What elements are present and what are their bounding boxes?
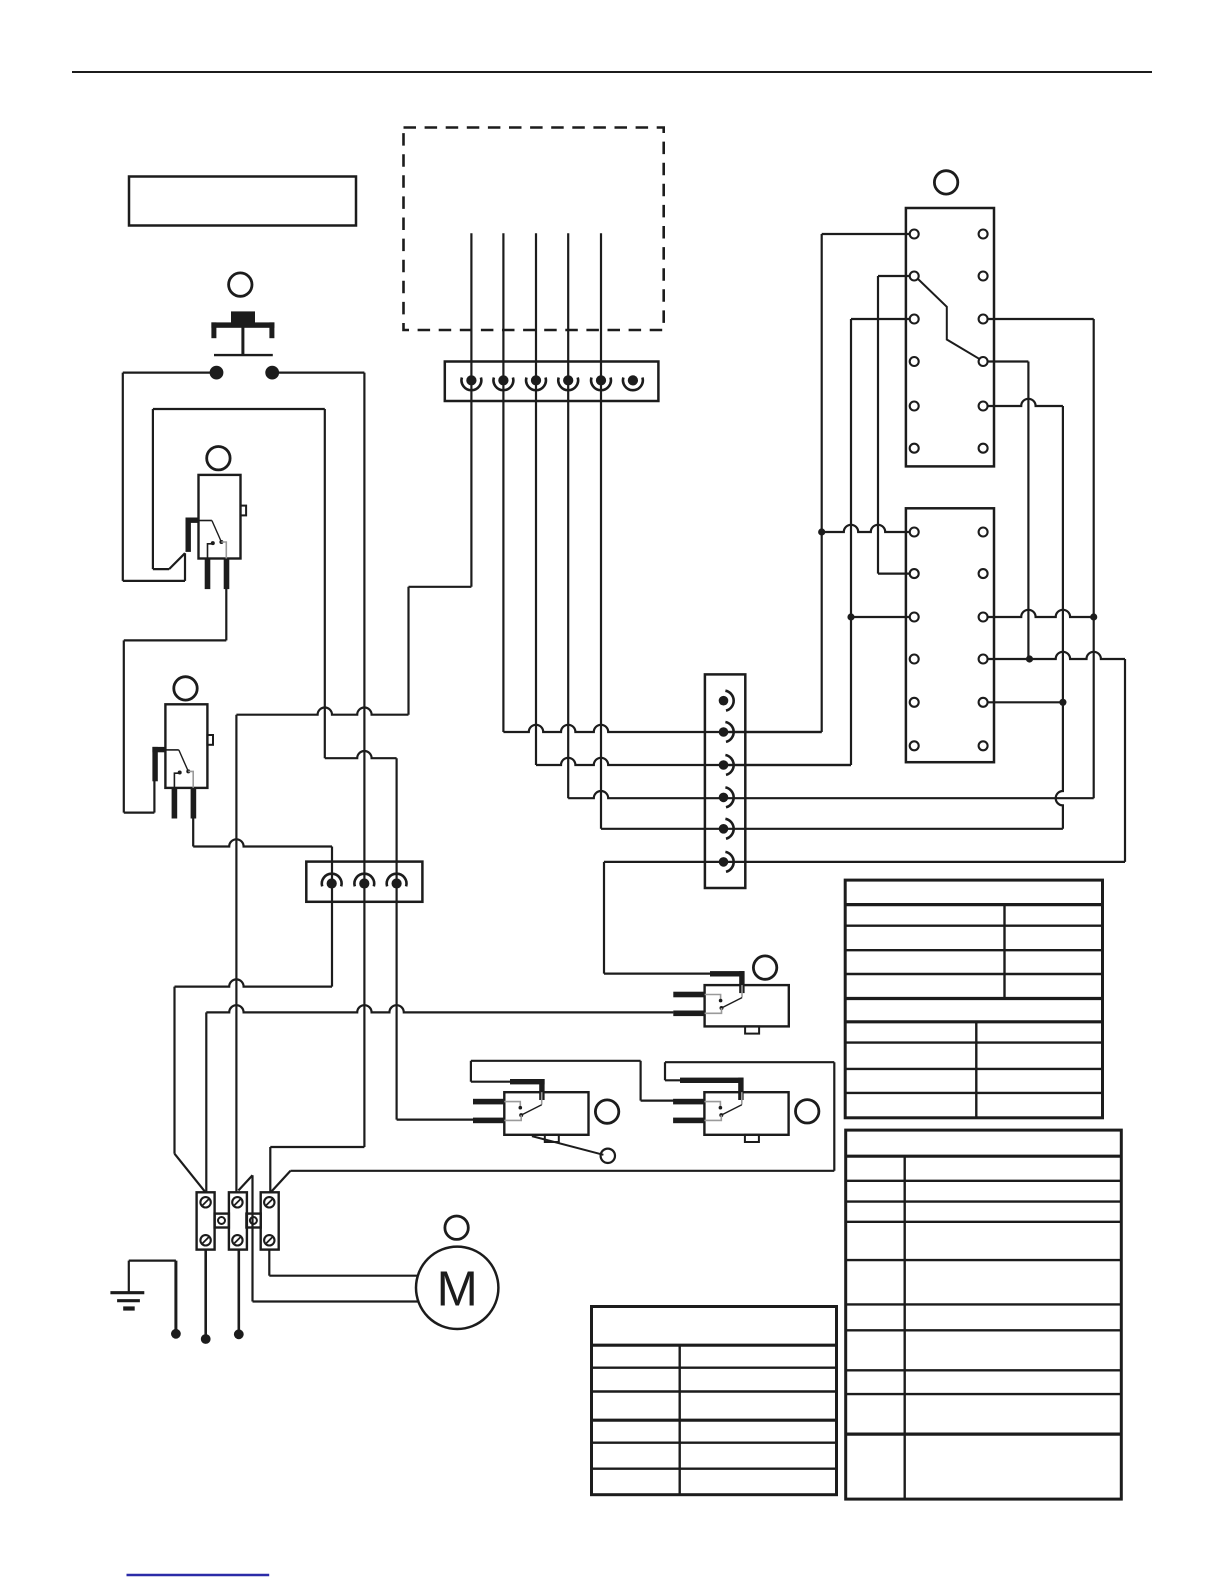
cord end dot 2 (201, 1334, 211, 1344)
micro-switch SW3 (horizontal) (504, 1092, 588, 1135)
U1 pin R y=234 (979, 230, 988, 239)
wire: to SW4 blade terminal (604, 972, 712, 974)
terminal: SW3 blade lead thick (510, 1079, 545, 1084)
wire: jog left (175, 979, 333, 986)
wire: inner loop top (153, 408, 325, 410)
U1 pin L y=361.5 (910, 357, 919, 366)
U2 pin R y=702.3 (979, 698, 988, 707)
wire: SW1 pin down (225, 589, 227, 641)
micro-switch SW1 (vertical) (199, 475, 241, 559)
wire: diagonal from lug block 2 (238, 1175, 252, 1190)
TB screw (200, 1197, 210, 1207)
wire: across to T2-1 (193, 839, 332, 846)
wire: across to long drop (236, 708, 408, 715)
wire: ground lead (129, 1259, 176, 1261)
wire: into SW5 upper pin (641, 1099, 674, 1101)
wire: down between lugs to motor (251, 1175, 253, 1301)
wire: to motor (253, 1300, 420, 1302)
wire (409, 586, 472, 588)
wire (123, 640, 125, 812)
wire: block2 L1 feed (822, 525, 910, 532)
wire: blade diagonal (169, 553, 185, 569)
TS1 terminal at x=503.4 (498, 375, 508, 385)
page header rule (72, 71, 1152, 73)
U1 pin L y=406 (910, 402, 919, 411)
push-button S1 (231, 311, 255, 322)
wire: row-3 (536, 758, 851, 765)
wire: jog left above terminal block (270, 1146, 364, 1148)
wire: ground cord drop (174, 1261, 177, 1334)
TS2 terminal at x=364.3 (359, 878, 369, 888)
control block U2 (right) (906, 508, 994, 762)
U2 pin L y=745.8 (910, 741, 919, 750)
micro-switch SW4 (horizontal) (705, 985, 789, 1026)
TS2 terminal at x=331.7 (327, 878, 337, 888)
wire: inner loop right vertical (324, 409, 326, 758)
U1 pin L y=448.2 (910, 444, 919, 453)
wire (124, 811, 155, 813)
wire: row-6 long run (604, 861, 1125, 863)
footer link line (127, 1574, 270, 1577)
U2 pin L y=659 (910, 655, 919, 664)
terminal strip TS1 (6-pole, top) (445, 362, 659, 402)
wire: row-2 to relay feed (503, 725, 821, 732)
wire: inner loop left vertical (152, 409, 154, 569)
U2 pin R y=532 (979, 528, 988, 537)
U1 internal contact (918, 279, 980, 360)
wire: T2-3 vertical down to SW3 (396, 758, 398, 1119)
TS1 terminal at x=471.4 (466, 375, 476, 385)
TS3 terminal at y=797.4 (719, 793, 729, 803)
wire: harness lead 2 (502, 233, 504, 732)
wire: block1 L1 (822, 233, 910, 235)
wire (850, 319, 852, 765)
wire (1027, 362, 1029, 660)
spec table 2 (bottom right) (846, 1130, 1122, 1499)
callout circle E (switch SW4) (753, 956, 776, 979)
callout circle D (control block) (934, 171, 957, 194)
wire: block1 L2 (878, 275, 910, 277)
wire: into SW3 lower pin (397, 1118, 474, 1120)
wire: cord drop 2 (204, 1250, 207, 1339)
junction (818, 528, 825, 535)
wire: block2 L3 (851, 616, 910, 618)
wire: push-button right lead (279, 372, 365, 374)
TS1 terminal at x=568.2 (563, 375, 573, 385)
terminal: SW5 blade lead thick (680, 1078, 743, 1083)
callout circle B (switch SW1) (207, 447, 230, 470)
wire: right bus 1 (1093, 319, 1095, 798)
wire: left bus down (821, 234, 823, 732)
wire: row-4 long run (568, 791, 1093, 798)
U1 pin L y=234 (910, 230, 919, 239)
TB screw (264, 1235, 274, 1245)
wire: down into lug block 1 (205, 1012, 207, 1192)
wire (639, 1061, 641, 1101)
SW3 roller lever (532, 1136, 604, 1155)
wire: row-6 drop to SW4 (603, 862, 605, 974)
wire: outer-left vertical (122, 373, 124, 581)
callout circle G (switch SW5) (796, 1100, 819, 1123)
wire: SW5 blade feed top (665, 1061, 834, 1063)
U2 pin R y=573.6 (979, 569, 988, 578)
U1 pin R y=276 (979, 272, 988, 281)
push-button contact dot right (265, 366, 279, 380)
wire: block2 L2 (878, 572, 910, 574)
U1 pin L y=276 (910, 272, 919, 281)
wire: block2 R3 (988, 610, 1094, 617)
motor M1 (416, 1247, 498, 1329)
U1 pin R y=448.2 (979, 444, 988, 453)
TB screw (232, 1197, 242, 1207)
wire: up to SW2 elbow (153, 781, 155, 813)
wire: right bus 2 (1056, 406, 1063, 829)
wire (153, 568, 169, 570)
U2 pin L y=532 (910, 528, 919, 537)
TS3 terminal at y=732 (719, 727, 729, 737)
wire: block1 L3 (851, 318, 910, 320)
spec table 1 (top right) (845, 880, 1102, 1118)
wire (664, 1062, 666, 1080)
wire: SW2 pin down (192, 818, 194, 847)
wire: to motor (269, 1275, 417, 1277)
control block U1 (top right) (906, 208, 994, 466)
push-button contact dot left (210, 366, 224, 380)
wire: row-5 long run (601, 828, 1063, 830)
wire: harness lead 4 (567, 233, 569, 798)
wire: down right side (833, 1062, 835, 1171)
U2 pin R y=745.8 (979, 741, 988, 750)
wire: through T2-1 down (331, 847, 333, 987)
wire: to terminal strip T2-3 (325, 751, 397, 758)
U2 pin L y=573.6 (910, 569, 919, 578)
wire: long vertical to T2-2 and down (363, 373, 365, 1147)
callout circle C (switch SW2) (174, 677, 197, 700)
cord end dot 3 (234, 1329, 244, 1339)
TB screw (264, 1197, 274, 1207)
cord end dot 1 (171, 1329, 181, 1339)
U1 pin R y=406 (979, 402, 988, 411)
svg-text:M: M (437, 1262, 478, 1317)
wire: down (173, 987, 175, 1154)
wire: block2 R5 (988, 701, 1063, 703)
wire: block1 R5 (988, 399, 1063, 406)
legend table 3 (bottom centre) (592, 1307, 837, 1495)
wire: stub up to blade pivot (184, 553, 186, 581)
micro-switch SW2 (vertical) (165, 704, 207, 788)
wire: block1 R4 (988, 360, 1029, 362)
wire: push-button left lead (123, 372, 211, 374)
callout circle A (push-button) (229, 273, 252, 296)
lug terminal blocks TB1-TB3 (197, 1192, 215, 1249)
terminal strip TS2 (3-pole, centre-left) (306, 862, 422, 902)
U1 pin L y=319 (910, 315, 919, 324)
wire: down into lug block 3 (269, 1147, 271, 1192)
wire: block2 R4 (988, 652, 1126, 659)
wire: block1 R3 (988, 318, 1094, 320)
junction (1059, 699, 1066, 706)
U1 pin R y=319 (979, 315, 988, 324)
wire (407, 587, 409, 715)
TS1 terminal at x=601 (596, 375, 606, 385)
terminal strip TS3 (6-pole, vertical centre) (705, 674, 745, 888)
wire: harness lead 3 (535, 233, 537, 765)
wire: into strip M-2 (724, 731, 822, 733)
wire: harness lead 1 (470, 233, 472, 587)
TB bridge hole 2 (250, 1217, 257, 1224)
wire: outer right bus (1124, 659, 1126, 862)
callout circle H (motor) (445, 1216, 468, 1239)
wire (470, 1061, 472, 1082)
terminal: SW4 blade lead thick (710, 971, 744, 976)
wire: diagonal into lug block 1 (175, 1154, 206, 1193)
U1 pin R y=361.5 (979, 357, 988, 366)
U2 pin R y=659 (979, 655, 988, 664)
wire: harness lead 5 (600, 233, 602, 829)
dashed enclosure box (component outline) (404, 128, 664, 331)
TS3 terminal at y=861.9 (719, 857, 729, 867)
ground symbol (128, 1261, 130, 1293)
wire (877, 276, 879, 574)
TB screw (232, 1235, 242, 1245)
wire (124, 639, 227, 641)
junction (1090, 613, 1097, 620)
U2 pin L y=617 (910, 613, 919, 622)
U2 pin L y=702.3 (910, 698, 919, 707)
TS3 terminal at y=700.7 (719, 696, 729, 706)
wire: lug block 3 to motor (268, 1250, 270, 1276)
wire: cord drop 3 (238, 1250, 241, 1335)
U2 pin R y=617 (979, 613, 988, 622)
wire: long run to lug block 3 (291, 1170, 835, 1172)
wire: long drop into lug block 2 (235, 715, 237, 1193)
wire: into strip M-3 (right side) (724, 764, 852, 766)
TS3 terminal at y=828.8 (719, 824, 729, 834)
TB screw (200, 1235, 210, 1245)
callout circle F (switch SW3) (595, 1100, 618, 1123)
TS3 terminal at y=765 (719, 760, 729, 770)
junction (1026, 655, 1033, 662)
wire: SW3 blade to SW5 pin link (471, 1060, 641, 1062)
wire: diagonal into lug block 3 (271, 1171, 291, 1192)
TS1 terminal at x=632.9 (628, 375, 638, 385)
empty label box top-left (129, 177, 356, 226)
TS1 terminal at x=536 (531, 375, 541, 385)
TS2 terminal at x=396.6 (392, 878, 402, 888)
wire: SW4 lower pin to lug block 1 (206, 1005, 673, 1012)
TB bridge hole 1 (218, 1217, 225, 1224)
micro-switch SW5 (horizontal) (704, 1092, 788, 1135)
junction (847, 613, 854, 620)
wire: bottom of outer loop (123, 580, 185, 582)
